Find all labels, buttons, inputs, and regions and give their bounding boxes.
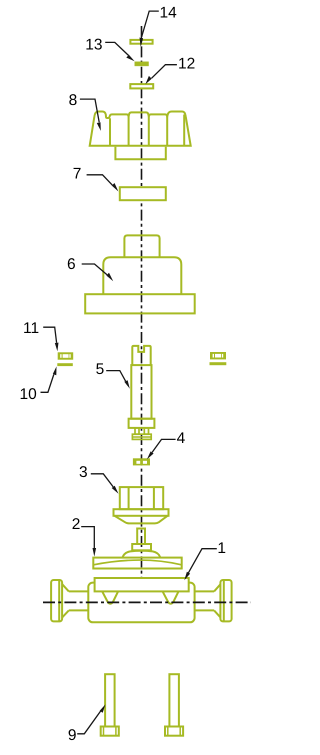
- nut 4: [133, 458, 150, 465]
- svg-text:10: 10: [20, 386, 38, 403]
- leader 13: [105, 42, 134, 61]
- leader 3: [91, 474, 119, 494]
- leader 7: [87, 175, 119, 192]
- leader 5: [106, 371, 130, 389]
- leader 12: [145, 65, 177, 85]
- leader 1: [184, 549, 217, 581]
- svg-text:11: 11: [23, 320, 39, 337]
- svg-text:4: 4: [177, 430, 186, 447]
- leader 11: [43, 327, 58, 351]
- compressor 3: [114, 487, 169, 523]
- leader 2: [81, 527, 96, 557]
- valve body 1: [51, 578, 232, 622]
- centerline vertical: [141, 26, 143, 577]
- stem 5: [129, 346, 155, 440]
- washer 13: [135, 62, 149, 66]
- bonnet 6: [85, 235, 195, 313]
- svg-text:2: 2: [72, 516, 81, 533]
- leader 14: [140, 11, 159, 47]
- svg-text:13: 13: [85, 36, 102, 53]
- washer 10: [57, 363, 73, 366]
- svg-text:3: 3: [79, 464, 88, 481]
- washer 7: [120, 187, 166, 200]
- leader 10: [41, 366, 57, 392]
- svg-text:5: 5: [96, 361, 105, 378]
- centerline horizontal: [43, 601, 251, 603]
- svg-text:8: 8: [69, 92, 78, 109]
- leader 9: [77, 704, 105, 733]
- diaphragm 2: [93, 529, 181, 569]
- nut right (mate of 11): [210, 352, 226, 359]
- leader 8: [80, 99, 101, 131]
- nut 11: [58, 352, 73, 359]
- svg-text:6: 6: [67, 256, 76, 273]
- svg-text:9: 9: [68, 727, 77, 744]
- svg-text:12: 12: [178, 55, 195, 72]
- bolt 9 right: [165, 674, 183, 736]
- leader 4: [147, 439, 176, 459]
- washer right (mate of 10): [210, 362, 227, 365]
- washer 14: [130, 40, 152, 44]
- svg-text:7: 7: [73, 165, 82, 182]
- svg-text:14: 14: [160, 4, 178, 21]
- handwheel 8: [90, 112, 191, 160]
- bolt 9 left: [101, 674, 119, 736]
- leader 6: [82, 264, 114, 281]
- washer 12: [130, 84, 153, 88]
- svg-text:1: 1: [217, 540, 226, 557]
